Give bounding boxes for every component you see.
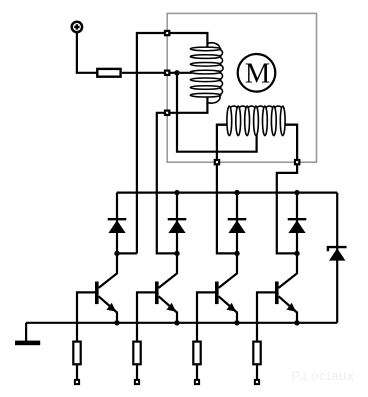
wire centre-tap feed to winding2	[177, 73, 257, 152]
wire resistor to winding1 centre tap	[122, 72, 192, 74]
transistor Q2	[155, 282, 177, 313]
resistor R4 base	[193, 342, 200, 365]
wire supply to resistor	[76, 72, 97, 74]
wire Q1 collector	[99, 253, 117, 288]
diode D1	[108, 219, 127, 233]
diode D5 (freewheel, right)	[328, 193, 347, 323]
diode D3	[228, 219, 247, 233]
wire Q2 emitter	[176, 312, 178, 323]
junction Q4 collector	[294, 251, 299, 256]
emitter bus	[26, 322, 337, 324]
motor M	[238, 54, 276, 92]
transistor Q3	[215, 282, 237, 313]
junction tap feed	[174, 70, 179, 75]
wire R3 to terminal	[136, 365, 138, 379]
junction Q2 collector	[174, 251, 179, 256]
wire R2 to terminal	[76, 365, 78, 379]
node W1-top terminal	[165, 31, 169, 35]
terminal T2	[135, 380, 139, 384]
resistor R2 base	[73, 342, 80, 365]
terminal T3	[195, 380, 199, 384]
wire diode D3 column	[236, 193, 238, 254]
svg-text:P.Loctaux: P.Loctaux	[292, 369, 355, 384]
resistor R5 base	[253, 342, 260, 365]
junction D4 cathode	[294, 190, 299, 195]
wire supply down	[76, 32, 78, 73]
wire Q4 collector	[279, 253, 297, 288]
ground	[15, 341, 40, 346]
junction Q4 emitter	[294, 320, 299, 325]
junction D2 cathode	[174, 190, 179, 195]
svg-text:M: M	[245, 58, 270, 89]
wire ground drop	[25, 323, 27, 341]
resistor R1 supply feed	[97, 69, 120, 77]
wire winding2 left to Q3 collector	[217, 125, 237, 254]
wire Q3 base	[197, 292, 216, 340]
wire Q4 emitter	[296, 312, 298, 323]
wire winding2 right to Q4 collector	[277, 125, 297, 254]
diode D2	[168, 219, 187, 233]
wire R4 to terminal	[196, 365, 198, 379]
junction Q1 emitter	[114, 320, 119, 325]
junction D3 cathode	[234, 190, 239, 195]
wire Q2 base	[137, 292, 156, 340]
node W1-tap terminal	[165, 71, 169, 75]
wire diode D2 column	[176, 193, 178, 254]
wire Q1 emitter	[116, 312, 118, 323]
junction Q2 emitter	[174, 320, 179, 325]
resistor R3 base	[133, 342, 140, 365]
wire diode D4 column	[296, 193, 298, 254]
wire Q3 collector	[219, 253, 237, 288]
transistor Q4	[275, 282, 297, 313]
wire Q3 emitter	[236, 312, 238, 323]
terminal T1	[75, 380, 79, 384]
boundary box (motor unit)	[167, 13, 316, 162]
wire winding1 top feed	[137, 33, 208, 254]
junction Q3 collector	[234, 251, 239, 256]
terminal T4	[255, 380, 259, 384]
wire diode D1 column	[116, 193, 118, 254]
inductor winding L2 (horizontal)	[217, 106, 297, 136]
cathode bus	[117, 192, 337, 194]
wire Q4 base	[257, 292, 276, 340]
node W1-bottom terminal	[165, 111, 169, 115]
diode D4	[288, 219, 307, 233]
transistor Q1	[95, 282, 117, 313]
node W2-right terminal	[295, 160, 299, 164]
power supply terminal	[72, 22, 82, 32]
junction Q3 emitter	[234, 320, 239, 325]
junction Q1 collector	[114, 251, 119, 256]
wire winding1 bottom lead	[157, 96, 208, 253]
wire winding1 top to Q1 collector	[116, 252, 137, 254]
wire Q2 collector	[159, 253, 177, 288]
wire Q1 base	[77, 292, 96, 340]
node W2-left terminal	[215, 160, 219, 164]
wire R5 to terminal	[256, 365, 258, 379]
inductor winding L1 (vertical)	[190, 43, 223, 103]
